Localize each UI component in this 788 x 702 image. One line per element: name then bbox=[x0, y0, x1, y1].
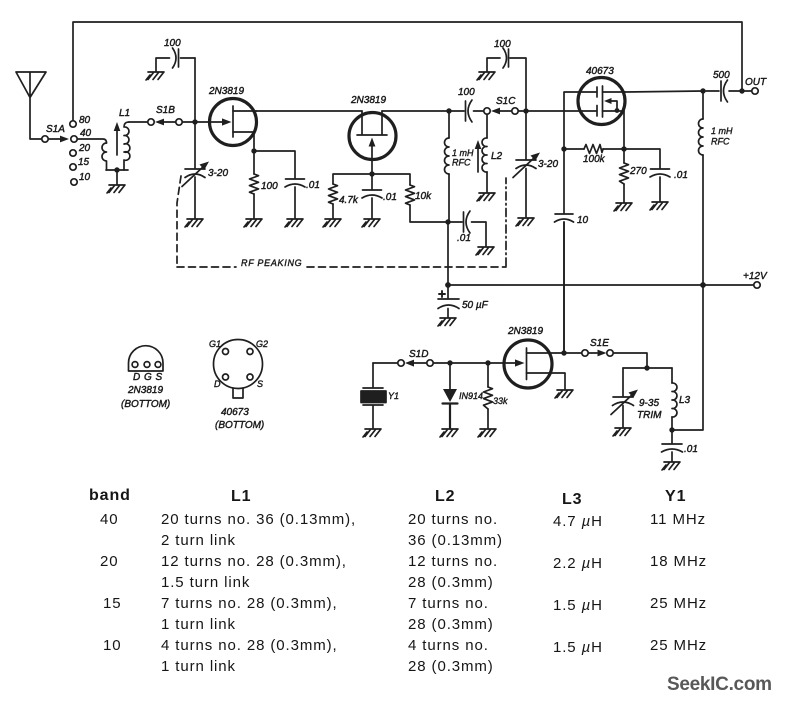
node contact 20 bbox=[70, 143, 91, 156]
wire injection riser to oscillator bbox=[563, 222, 565, 352]
node output junction bbox=[739, 88, 744, 93]
svg-text:28 (0.3mm): 28 (0.3mm) bbox=[408, 574, 494, 591]
ground below oscillator source bbox=[555, 390, 573, 398]
svg-text:11 MHz: 11 MHz bbox=[650, 511, 706, 528]
capacitor .01 Q1 bypass bbox=[285, 179, 320, 218]
ground below 4.7k bbox=[323, 219, 341, 227]
switch S1B bbox=[148, 119, 195, 126]
svg-text:28 (0.3mm): 28 (0.3mm) bbox=[408, 616, 494, 633]
wire crystal branch corner bbox=[373, 362, 398, 364]
ground below L2 bbox=[477, 193, 495, 201]
svg-text:2.2 µH: 2.2 µH bbox=[553, 555, 603, 572]
node junction 10k/.01 bbox=[445, 219, 450, 224]
ground below .01 40673 bbox=[650, 202, 668, 210]
switch S1A bbox=[42, 136, 69, 143]
ground below resistor 100 bbox=[244, 219, 262, 227]
svg-text:12 turns no. 28 (0.3mm),: 12 turns no. 28 (0.3mm), bbox=[161, 553, 347, 570]
node OUT terminal bbox=[745, 77, 768, 94]
node tank bottom junction bbox=[669, 427, 674, 432]
ground below L1 bbox=[107, 185, 125, 193]
capacitor .01 40673 bbox=[624, 149, 688, 201]
node table row 15 bbox=[103, 595, 707, 633]
svg-text:L1: L1 bbox=[231, 488, 251, 505]
transistor Q3 2N3819 oscillator bbox=[490, 326, 565, 389]
wire diode junction to 33k junction bbox=[450, 362, 488, 364]
inductor L1 link winding bbox=[102, 143, 107, 170]
svg-text:20 turns no.: 20 turns no. bbox=[408, 511, 498, 528]
wire L1 tap arrow bbox=[114, 122, 121, 155]
capacitor 9-35 trimmer bbox=[611, 368, 662, 427]
wire Q1 drain rail to Q2 bbox=[256, 110, 362, 112]
ground below 3-20 second bbox=[516, 218, 534, 226]
transistor 40673 pinout package bbox=[209, 339, 268, 398]
wire junction to ground bbox=[116, 170, 118, 184]
ground below .01 bbox=[285, 219, 303, 227]
node contact 40 bbox=[71, 128, 92, 142]
svg-text:18 MHz: 18 MHz bbox=[650, 553, 707, 570]
resistor 100 source Q1 bbox=[250, 151, 279, 218]
diode 1N914 bbox=[443, 363, 484, 428]
node table row 20 bbox=[100, 553, 707, 591]
inductor 1mH RFC left bbox=[445, 111, 475, 222]
capacitor 500 output bbox=[706, 70, 740, 102]
capacitor 10 series bbox=[555, 149, 589, 352]
wire L2 tap arrow bbox=[475, 140, 482, 172]
svg-text:28 (0.3mm): 28 (0.3mm) bbox=[408, 658, 494, 675]
node 100k right junction bbox=[621, 146, 626, 151]
wire G1 rail to 40673 bbox=[526, 110, 596, 112]
svg-text:4 turns no.: 4 turns no. bbox=[408, 637, 489, 654]
inductor 1mH RFC output bbox=[699, 91, 734, 284]
svg-text:Y1: Y1 bbox=[665, 488, 686, 505]
transistor Q2 2N3819 bbox=[349, 95, 396, 174]
wire L1 bottom bar bbox=[106, 169, 128, 171]
node table row 40 bbox=[100, 511, 706, 549]
wire RF peaking dashed box bbox=[177, 176, 506, 267]
wire top rail bbox=[73, 22, 742, 121]
wire 40673 source down bbox=[623, 111, 625, 149]
wire 40673 drain rail bbox=[625, 91, 703, 92]
node 100k left junction bbox=[561, 146, 566, 151]
svg-text:12 turns no.: 12 turns no. bbox=[408, 553, 498, 570]
capacitor .01 tank bbox=[662, 430, 698, 461]
resistor 270 bbox=[620, 149, 648, 202]
svg-text:25 MHz: 25 MHz bbox=[650, 595, 707, 612]
transistor U1 40673 bbox=[578, 66, 625, 125]
svg-text:4.7 µH: 4.7 µH bbox=[553, 513, 603, 530]
wire rail down to +12V junction bbox=[447, 222, 449, 285]
switch S1C bbox=[484, 96, 526, 114]
svg-text:4 turns no. 28 (0.3mm),: 4 turns no. 28 (0.3mm), bbox=[161, 637, 338, 654]
node table row 10 bbox=[103, 637, 707, 675]
node tank junction bbox=[644, 365, 649, 370]
capacitor 100 top-left bbox=[156, 38, 195, 71]
node oscillator drain junction bbox=[561, 350, 566, 355]
svg-text:25 MHz: 25 MHz bbox=[650, 637, 707, 654]
wire G2 riser and lead bbox=[564, 92, 596, 148]
wire +12V rail bbox=[448, 284, 753, 286]
wire Q2 drain rail right bbox=[382, 110, 449, 112]
ground below 100 cap bbox=[146, 72, 164, 80]
node junction gate Q1 bbox=[192, 119, 197, 124]
resistor 4.7k bbox=[329, 174, 373, 218]
ground below 3-20 bbox=[185, 219, 203, 227]
capacitor 100 top middle bbox=[487, 39, 526, 108]
node junction RFC out bbox=[700, 88, 705, 93]
svg-text:15: 15 bbox=[103, 595, 122, 612]
transistor Q1 2N3819 bbox=[198, 86, 257, 148]
svg-text:1 turn link: 1 turn link bbox=[161, 616, 236, 633]
ground below 50uF bbox=[438, 318, 456, 326]
transistor 2N3819 pinout package bbox=[129, 346, 164, 383]
wire L1 to S1B bbox=[129, 121, 148, 123]
svg-text:1.5 turn link: 1.5 turn link bbox=[161, 574, 250, 591]
ground below .01 tank bbox=[662, 462, 680, 470]
node contact 10 bbox=[71, 172, 91, 185]
svg-text:7 turns no. 28 (0.3mm),: 7 turns no. 28 (0.3mm), bbox=[161, 595, 338, 612]
capacitor 3-20 first trimmer bbox=[182, 162, 228, 187]
svg-text:36 (0.13mm): 36 (0.13mm) bbox=[408, 532, 503, 549]
wire source to bypass cap bbox=[254, 151, 295, 178]
resistor 33k bbox=[484, 363, 509, 428]
ground below 100 top middle bbox=[477, 72, 495, 80]
inductor L2 bbox=[482, 115, 503, 193]
svg-text:1.5 µH: 1.5 µH bbox=[553, 639, 603, 656]
node contact 80 bbox=[70, 115, 91, 127]
switch S1E bbox=[567, 338, 647, 368]
svg-text:2 turn link: 2 turn link bbox=[161, 532, 236, 549]
inductor L3 bbox=[672, 368, 691, 430]
wire tank top rail bbox=[623, 367, 672, 369]
svg-text:1.5 µH: 1.5 µH bbox=[553, 597, 603, 614]
capacitor .01 Q2 bbox=[362, 174, 397, 218]
ground below crystal bbox=[363, 429, 381, 437]
capacitor 3-20 second trimmer bbox=[513, 111, 558, 217]
antenna bbox=[16, 72, 46, 139]
ground below 270 bbox=[614, 203, 632, 211]
crystal Y1 bbox=[361, 363, 399, 428]
node junction 50uF bbox=[445, 282, 451, 288]
inductor L1 main winding bbox=[124, 122, 130, 170]
ground below diode bbox=[440, 429, 458, 437]
node +12V terminal bbox=[743, 271, 768, 288]
resistor 100k bbox=[564, 145, 624, 166]
wire cap to gate junction and down to trimmer bbox=[194, 58, 196, 218]
capacitor .01 on supply line bbox=[448, 211, 486, 246]
ground below .01 supply bbox=[476, 247, 494, 255]
svg-text:L2: L2 bbox=[435, 488, 455, 505]
svg-text:20: 20 bbox=[100, 553, 119, 570]
svg-text:10: 10 bbox=[103, 637, 122, 654]
node Q2 gate junction bbox=[369, 171, 374, 176]
svg-text:7 turns no.: 7 turns no. bbox=[408, 595, 489, 612]
svg-text:1 turn link: 1 turn link bbox=[161, 658, 236, 675]
resistor 10k bbox=[372, 174, 448, 222]
node Q1 source junction bbox=[251, 148, 256, 153]
switch S1D bbox=[398, 349, 450, 367]
svg-text:band: band bbox=[89, 487, 131, 504]
node substrate-source junction bbox=[615, 108, 620, 113]
svg-text:SeekIC.com: SeekIC.com bbox=[667, 674, 772, 695]
ground below 33k bbox=[478, 429, 496, 437]
capacitor 100 series to S1C bbox=[451, 87, 484, 122]
node +12V junction at RFC bbox=[700, 282, 706, 288]
svg-text:L3: L3 bbox=[562, 491, 582, 508]
wire tank bottom to RFC riser bbox=[672, 285, 703, 430]
node contact 15 bbox=[70, 157, 90, 170]
node rail junction above RFC bbox=[446, 108, 451, 113]
ground below 9-35 bbox=[613, 428, 631, 436]
capacitor 50uF electrolytic bbox=[438, 285, 489, 317]
node junction S1C right bbox=[523, 108, 528, 113]
svg-text:20 turns no. 36 (0.13mm),: 20 turns no. 36 (0.13mm), bbox=[161, 511, 356, 528]
svg-text:40: 40 bbox=[100, 511, 119, 528]
node diode junction bbox=[447, 360, 452, 365]
node 33k junction bbox=[485, 360, 490, 365]
ground below .01 Q2 bbox=[362, 219, 380, 227]
wire 40 contact to link winding bbox=[78, 139, 107, 143]
node L1 ground junction bbox=[114, 167, 119, 172]
